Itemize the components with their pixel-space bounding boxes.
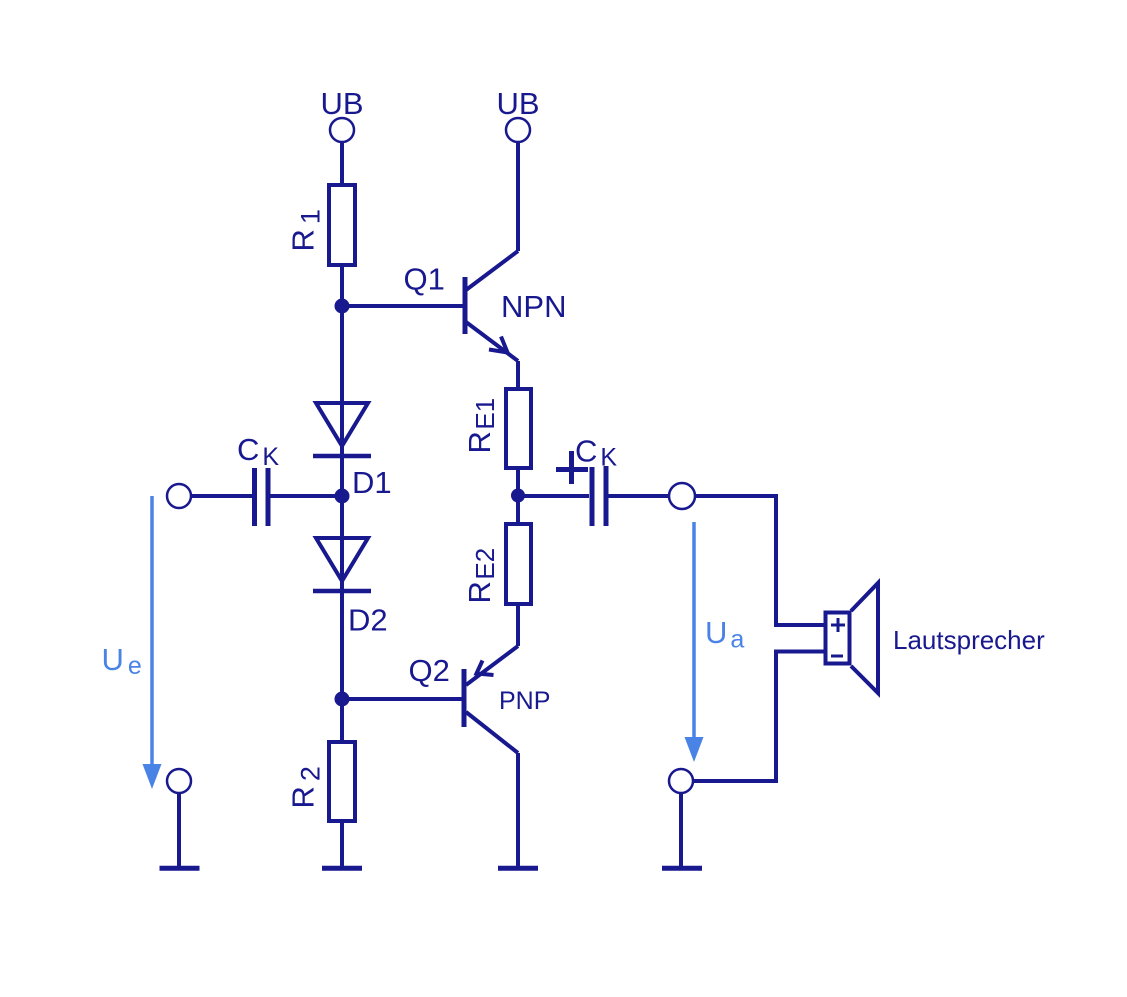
svg-text:NPN: NPN [501,289,566,324]
svg-text:Q2: Q2 [409,653,450,688]
svg-text:D2: D2 [348,603,388,638]
svg-text:UB: UB [320,86,363,121]
svg-text:D1: D1 [352,465,392,500]
svg-text:UB: UB [496,86,539,121]
svg-text:PNP: PNP [499,687,550,715]
svg-text:Lautsprecher: Lautsprecher [893,625,1045,655]
svg-text:Q1: Q1 [404,262,445,297]
